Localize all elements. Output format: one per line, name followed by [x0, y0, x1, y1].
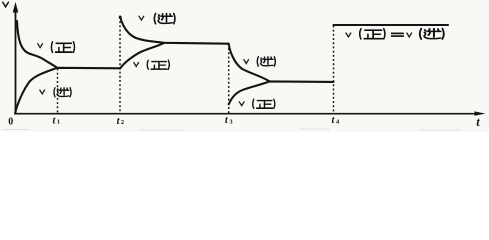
svg-text:2: 2	[121, 119, 124, 126]
svg-text:1: 1	[57, 119, 60, 126]
svg-text:0: 0	[8, 117, 13, 128]
svg-text:t: t	[476, 115, 480, 129]
